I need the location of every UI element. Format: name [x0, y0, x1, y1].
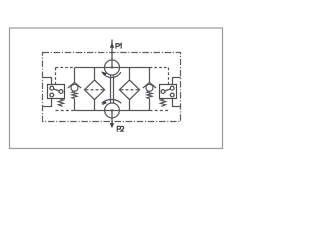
- rotary joint bottom (circle): [105, 103, 120, 118]
- drain line right (solid out): [173, 99, 181, 107]
- rotary joint top (circle): [105, 60, 120, 75]
- rotation arrow bottom: [102, 101, 107, 106]
- filter right: [119, 68, 139, 111]
- drain line left (dashed along bus): [56, 110, 75, 112]
- port P1 arrow: [110, 43, 114, 48]
- pilot valve left internals: [50, 86, 63, 97]
- seat V: [68, 82, 81, 88]
- port P1 line: [111, 40, 113, 61]
- label P2: [117, 126, 124, 131]
- filter left: [84, 68, 104, 111]
- port P2 arrow: [110, 123, 114, 128]
- shaft double line: [111, 75, 114, 104]
- pilot valve right internals: [161, 86, 174, 97]
- rotation arrow top: [101, 71, 107, 76]
- seat V: [143, 82, 156, 88]
- ball: [146, 84, 153, 91]
- enclosure boundary (dash-dot envelope): [43, 53, 181, 122]
- pilot line left (solid in): [43, 78, 52, 85]
- wire top bus: [75, 67, 150, 69]
- check valve left: stem: [68, 68, 81, 111]
- spring: [147, 91, 152, 99]
- check valve right: stem: [143, 68, 156, 111]
- drain line right (dashed along bus): [150, 110, 169, 112]
- port P2 line: [111, 118, 113, 124]
- pilot valve right: body: [160, 85, 177, 99]
- pilot valve left: body: [48, 85, 65, 99]
- pilot valve left spring: [58, 99, 63, 107]
- pilot line right (dashed): [150, 68, 169, 85]
- pilot line left (dashed): [56, 68, 75, 85]
- rotation arc top: [102, 72, 121, 77]
- label P1: [116, 44, 121, 49]
- pilot valve right spring: [160, 99, 165, 107]
- ball: [71, 84, 78, 91]
- rotation arc bottom: [102, 99, 122, 103]
- spring: [72, 91, 77, 99]
- pilot line right (solid in): [173, 78, 181, 85]
- wire bottom bus: [75, 110, 150, 112]
- drain line left (solid out): [43, 99, 52, 107]
